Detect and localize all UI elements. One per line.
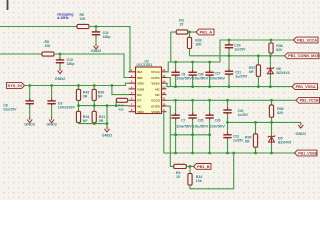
wire R40 to DT pin [128,99,129,101]
capacitor C23 [223,122,231,153]
junctions on VCCA rail [174,39,272,64]
svg-text:GND: GND [137,87,145,91]
resistor R3 [176,30,188,34]
svg-text:10u/50V: 10u/50V [176,125,193,129]
svg-text:100: 100 [80,17,86,21]
label R34 10k [196,175,202,183]
resistor R38 [269,40,273,56]
label R36 820 [277,107,283,115]
zener diode D5 [268,122,275,153]
resistor R40 [116,98,127,102]
ground GND1 [296,122,307,136]
wire VDD to R43 [78,86,80,90]
resistor R33 [187,32,191,56]
svg-text:VSSB: VSSB [151,110,160,114]
resistor R44 [76,111,80,122]
capacitor C8 [26,86,34,118]
svg-text:GND2: GND2 [91,49,102,53]
wire EN pin tap from VDD rail [112,86,129,95]
svg-text:DT: DT [137,99,141,103]
svg-text:VSSA: VSSA [151,82,160,86]
svg-text:820: 820 [276,48,282,52]
label R33 10K [195,39,202,47]
wire VCCA riser to R3 [171,32,176,62]
svg-text:15: 15 [162,74,166,78]
svg-text:NC: NC [155,93,160,97]
label R6 100 [80,13,86,21]
svg-text:10u/50V: 10u/50V [192,77,209,81]
wire gate line A [190,55,285,57]
wire R43 to R44 [78,101,80,112]
svg-text:180p: 180p [67,62,75,66]
svg-text:4-10Hz: 4-10Hz [57,16,69,20]
wire GND2 drop [106,106,108,127]
svg-text:BZX4V5: BZX4V5 [278,140,291,144]
label C24 1u/25V [234,43,246,51]
capacitor C21 [225,56,233,87]
label C20 1u/25V [238,109,249,117]
svg-text:VCCB: VCCB [151,99,161,103]
label R37 NF [249,66,255,74]
wire VCCB rail [167,99,297,101]
wire gate line B / GND1 rail [228,121,301,123]
junction node INA-RC [95,25,98,28]
label R30 NF [98,90,104,98]
global label PB1_B [194,164,212,170]
svg-text:BZX4V3: BZX4V3 [276,71,289,75]
label C9 100n/100V [58,101,76,109]
wire VDD to R30 [93,86,95,90]
svg-text:PB1_CONN_M15: PB1_CONN_M15 [288,54,319,58]
global label PB1_VCCA [294,37,319,43]
resistor R35 [253,122,257,153]
ground GND2 (under C10) [55,68,66,81]
svg-text:100n/100V: 100n/100V [58,105,76,109]
wire R6 to pin INA [89,27,130,72]
svg-text:820: 820 [277,111,283,115]
svg-text:1u/25V: 1u/25V [238,113,249,117]
svg-text:10u/50V: 10u/50V [176,77,193,81]
junctions on VDD rail [28,84,113,87]
IC U2 UCC21521 [136,59,162,113]
svg-text:15: 15 [176,175,180,179]
svg-text:10n/50V: 10n/50V [209,77,226,81]
wire R40 left drop [115,100,117,105]
svg-text:11: 11 [162,97,165,101]
wire OUTB to R4 [167,106,174,166]
label D5 BZX4V5 [278,136,291,144]
svg-text:180p: 180p [103,35,111,39]
svg-text:OUTA: OUTA [151,76,160,80]
label C10 180p [67,58,75,66]
capacitor C7 [171,100,179,153]
svg-text:10k: 10k [196,179,202,183]
ground GND2 (input block) [102,126,113,137]
svg-text:VDD: VDD [137,110,144,114]
capacitor C36 [188,62,196,87]
svg-text:0R: 0R [99,119,104,123]
capacitor C24 [225,40,233,56]
svg-text:NC: NC [137,104,142,108]
capacitor C27 [205,62,213,87]
svg-text:100: 100 [45,44,51,48]
svg-text:PB1_VCCA: PB1_VCCA [297,38,318,42]
label R4 15 [176,171,181,179]
resistor R31 [92,111,96,122]
junctions on bottom line [93,122,109,125]
svg-text:GND2: GND2 [24,123,35,127]
labels bank B caps [176,119,226,129]
svg-text:GND2: GND2 [55,77,66,81]
wire VSSB rail [164,112,295,153]
junctions on gate line B [226,121,273,124]
ground GND2 (under C9) [46,117,57,127]
capacitor C10 [56,54,64,68]
global label PB1_CONN_M15 [285,53,320,59]
svg-text:GND2: GND2 [102,134,113,138]
label C8 22u/25V [3,103,17,111]
svg-text:GND1: GND1 [296,132,307,136]
label R43 0R [83,90,89,98]
label R44 NF [83,115,89,123]
svg-text:1u/25V: 1u/25V [235,74,248,78]
svg-text:VDD: VDD [137,82,144,86]
wire R31 bottom [93,122,95,123]
wire VDD rail [25,83,129,85]
svg-text:PB1_B: PB1_B [197,165,210,169]
junction node PB1_B [189,165,192,168]
svg-text:INA: INA [137,70,143,74]
wire resistor bottoms to GND2 [79,122,108,123]
resistor R36 [269,100,273,122]
svg-text:15: 15 [179,22,183,26]
global label SYS_5V [7,83,25,89]
svg-text:13: 13 [162,85,166,89]
comment text "chopping 4-10Hz" [57,12,74,20]
svg-text:PB1_A: PB1_A [200,30,213,34]
svg-text:14: 14 [162,80,166,84]
label R35 NF [245,136,251,144]
label D6 BZX4V3 [276,67,289,75]
label R38 820 [276,44,282,52]
svg-text:VCCA: VCCA [151,70,161,74]
global label PB1_VCCB [296,97,320,103]
svg-text:1u/25V: 1u/25V [233,138,244,142]
resistor R5 [42,52,54,56]
wire INA input from left edge [0,26,77,28]
junctions on bank B mid tie [174,133,211,136]
zener diode D6 [267,56,274,87]
svg-text:NC: NC [155,87,160,91]
global label PB1_VSSB [295,150,318,156]
junctions on gate line A [228,54,272,57]
svg-text:C35: C35 [198,119,204,123]
svg-text:420: 420 [118,108,123,112]
junction node INB-RC [59,53,62,56]
svg-text:OUTB: OUTB [151,104,161,108]
wire mid line to pin 7 [79,105,129,107]
label R31 0R [99,115,105,123]
svg-text:16: 16 [162,68,166,72]
svg-text:10n/50V: 10n/50V [209,125,226,129]
resistor R37 [256,56,260,87]
label R40 420 [118,104,124,112]
resistor R43 [76,89,80,100]
wire OUTA drop [167,78,171,87]
svg-text:12: 12 [162,91,166,95]
svg-text:22u/25V: 22u/25V [3,107,17,111]
junctions on mid line [77,104,118,107]
wire R3 to label PB1_A [188,31,196,33]
junctions on VSSB rail [174,152,273,155]
capacitor C35 [188,100,196,153]
junctions on VSSA rail [174,85,272,88]
resistor R4 [174,164,187,168]
svg-text:10: 10 [162,102,166,106]
capacitor C11 [92,27,100,44]
labels bank A caps [176,71,248,81]
svg-text:SYS_5V: SYS_5V [8,84,23,88]
svg-text:C7: C7 [181,119,185,123]
resistor R6 [77,24,89,28]
bus stub (top-left partial vertical line) [7,0,9,10]
label R3 15 [179,18,184,26]
ground GND2 (under C11) [91,43,102,53]
capacitor C9 [47,86,55,118]
capacitor C26 [205,100,213,153]
label C11 180p [103,31,111,39]
svg-text:INB: INB [137,76,143,80]
wire R4 to label PB1_B [186,165,193,167]
global label PB1_VSSA [292,84,318,90]
wire VCCA rail [167,40,294,72]
svg-text:UCC21521: UCC21521 [137,63,153,67]
svg-text:C27: C27 [215,71,221,75]
wire bank B mid tie [170,134,209,136]
svg-text:10K: 10K [195,43,202,47]
resistor R34 [188,153,234,189]
svg-text:PB1_VSSB: PB1_VSSB [298,151,318,155]
wire VSSA rail [167,83,293,86]
wire R5 to pin INB [54,54,129,78]
svg-text:1u/25V: 1u/25V [234,47,246,51]
svg-text:PB1_VSSA: PB1_VSSA [296,85,317,89]
junctions on VCCB rail [174,99,273,102]
label C23 1u/25V [233,134,244,142]
svg-text:PB1_VCCB: PB1_VCCB [300,99,320,103]
label R5 100 [45,40,51,48]
svg-text:GND2: GND2 [46,123,57,127]
svg-text:10u/50V: 10u/50V [192,125,209,129]
ground GND2 (under C8) [24,117,35,127]
svg-text:EN: EN [137,93,142,97]
capacitor C20 [223,100,231,122]
capacitor C6 [171,62,179,87]
svg-text:C26: C26 [215,119,221,123]
wire INB input from left edge [0,53,42,55]
wire R30 to R31 [93,101,95,112]
global label PB1_A [196,29,214,35]
resistor R30 [92,89,96,100]
junction node PB1_A [188,31,191,34]
svg-text:0R: 0R [83,94,88,98]
IC U2 pins [129,68,167,114]
